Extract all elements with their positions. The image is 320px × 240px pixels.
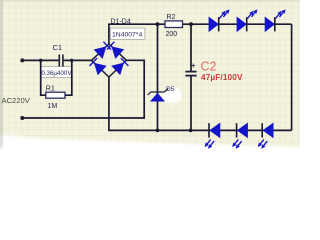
- wire C1/R1 loop right vertical: [65, 60, 72, 95]
- svg-text:D1-D4: D1-D4: [111, 19, 131, 26]
- bridge rectifier D1-D4 outline: [92, 44, 127, 77]
- LED D6 top: [209, 9, 230, 31]
- label AC220V: [2, 96, 31, 105]
- LED D11 bottom: [258, 123, 273, 149]
- page bottom white curl: [0, 135, 302, 161]
- label D5: [166, 86, 175, 93]
- label R1: [46, 86, 55, 93]
- svg-text:1N4007*4: 1N4007*4: [112, 32, 142, 39]
- diode D1 top-left: [94, 42, 111, 58]
- svg-text:200: 200: [166, 31, 178, 38]
- scan edge shading left/top: [0, 0, 300, 148]
- node AC top terminal: [20, 58, 24, 62]
- label C1: [53, 43, 63, 52]
- label R2: [167, 14, 176, 21]
- wire AC top terminal to bridge left: [22, 59, 91, 61]
- svg-text:C2: C2: [201, 60, 217, 74]
- paper background with grid: [0, 0, 300, 156]
- node junction C2 bottom: [189, 129, 193, 133]
- node junction C2 top: [189, 22, 193, 26]
- diode D2 top-right: [107, 42, 123, 58]
- resistor R1: [46, 92, 65, 98]
- value box 0.36u400V: [41, 67, 73, 78]
- value 200: [166, 31, 178, 38]
- node junction C1R1 right: [70, 59, 74, 63]
- LED D9 bottom: [205, 123, 220, 149]
- resistor R2: [165, 21, 183, 28]
- svg-text:R2: R2: [167, 14, 176, 21]
- node junction D5 bottom: [156, 129, 160, 133]
- wire bridge top corner to top rail: [109, 24, 292, 44]
- value 1M: [48, 103, 58, 110]
- wire right edge vertical: [291, 24, 293, 130]
- svg-text:C1: C1: [53, 43, 63, 52]
- svg-text:0.36µ400V: 0.36µ400V: [41, 70, 72, 77]
- label D1-D4: [111, 19, 131, 26]
- node junction C1R1 left: [39, 59, 43, 63]
- svg-text:1M: 1M: [48, 103, 58, 110]
- wire bridge bottom corner to bottom rail: [109, 77, 292, 130]
- zener diode D5: [148, 88, 169, 101]
- node junction D5 top: [156, 22, 160, 26]
- wire D5 branch vertical: [157, 24, 159, 130]
- diode D4 bottom-right: [112, 58, 128, 74]
- LED D8 top: [265, 9, 286, 31]
- diode D3 bottom-left: [90, 58, 106, 74]
- value box 1N4007*4: [110, 28, 145, 39]
- LED D10 bottom: [232, 123, 247, 149]
- capacitor C2: [185, 64, 196, 76]
- value 47uF/100V: [201, 73, 243, 82]
- wire C2 branch vertical: [190, 24, 192, 130]
- svg-text:R1: R1: [46, 86, 55, 93]
- wire AC bottom to bridge right corner: [22, 60, 144, 118]
- LED D7 top: [237, 9, 258, 31]
- svg-text:47µF/100V: 47µF/100V: [201, 73, 243, 82]
- capacitor C1: [59, 55, 63, 67]
- svg-text:D5: D5: [166, 86, 175, 93]
- zener diode D5 halo: [162, 87, 182, 104]
- label C2: [201, 60, 217, 74]
- wire C1/R1 loop left vertical: [41, 60, 46, 95]
- svg-text:AC220V: AC220V: [2, 96, 31, 105]
- node AC bottom terminal: [20, 116, 24, 120]
